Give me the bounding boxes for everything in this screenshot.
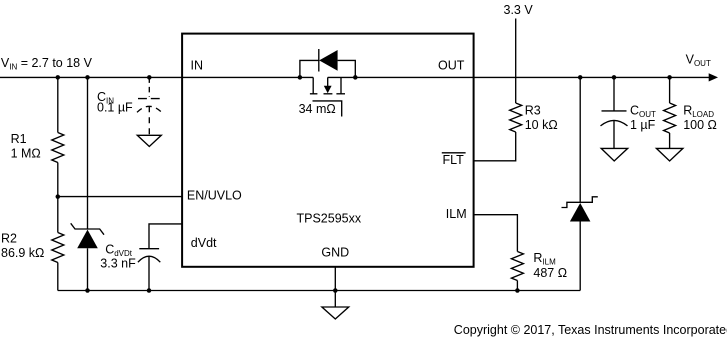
resistor RLOAD branch <box>669 77 671 103</box>
wire FLT <box>474 132 516 161</box>
wire EN/UVLO <box>58 196 182 198</box>
svg-text:3.3 nF: 3.3 nF <box>100 257 136 271</box>
diode D2 zener output clamp <box>579 77 581 202</box>
wire VIN input rail <box>0 76 313 78</box>
wire <box>57 163 59 233</box>
svg-text:1 MΩ: 1 MΩ <box>11 146 41 160</box>
transistor Q1 internal FET body diode <box>300 60 319 77</box>
svg-text:86.9 kΩ: 86.9 kΩ <box>1 246 44 260</box>
svg-text:GND: GND <box>321 245 349 259</box>
wire OUT rail <box>328 76 710 78</box>
ground <box>601 148 628 161</box>
svg-text:Copyright © 2017, Texas Instru: Copyright © 2017, Texas Instruments Inco… <box>454 323 727 337</box>
node junction dots <box>56 75 61 80</box>
svg-text:IN: IN <box>191 59 204 73</box>
svg-text:0.1 µF: 0.1 µF <box>97 101 133 115</box>
wire ILM <box>474 215 518 252</box>
svg-text:ILM: ILM <box>446 207 467 221</box>
svg-text:1 µF: 1 µF <box>630 118 656 132</box>
resistor R1 <box>52 133 64 163</box>
ground <box>656 148 683 161</box>
resistor R2 <box>52 233 64 263</box>
svg-text:10 kΩ: 10 kΩ <box>525 118 558 132</box>
wire <box>57 263 59 291</box>
svg-text:487 Ω: 487 Ω <box>533 266 567 280</box>
svg-text:R2: R2 <box>1 232 17 246</box>
capacitor COUT <box>613 77 615 111</box>
svg-text:34 mΩ: 34 mΩ <box>299 102 336 116</box>
ground <box>322 307 349 319</box>
svg-text:FLT: FLT <box>443 153 465 167</box>
svg-text:R3: R3 <box>525 104 541 118</box>
svg-text:dVdt: dVdt <box>191 236 217 250</box>
svg-text:100 Ω: 100 Ω <box>683 118 717 132</box>
wire R1/R2 divider branch <box>57 77 59 132</box>
wire ground rail <box>58 290 580 292</box>
transistor Q1 FET channel <box>312 77 314 93</box>
resistor RILM <box>511 252 523 281</box>
diode D1 zener <box>71 223 104 234</box>
op-amp U1 TPS2595xx box <box>182 34 474 267</box>
wire GND pin <box>334 267 336 307</box>
ground <box>137 135 161 146</box>
svg-text:R1: R1 <box>11 132 27 146</box>
wire zener D1 branch <box>87 77 89 229</box>
capacitor CIN (dashed optional) <box>148 77 150 97</box>
svg-text:3.3 V: 3.3 V <box>504 3 534 17</box>
svg-text:TPS2595xx: TPS2595xx <box>297 212 362 226</box>
wire gate leader <box>313 101 342 117</box>
svg-text:OUT: OUT <box>438 59 465 73</box>
wire 3.3V pullup <box>515 19 517 104</box>
wire dVdt <box>149 224 182 249</box>
node VOUT arrowhead <box>709 73 718 81</box>
svg-text:EN/UVLO: EN/UVLO <box>187 189 242 203</box>
resistor R3 <box>510 103 522 132</box>
capacitor CdVDt <box>139 248 159 250</box>
